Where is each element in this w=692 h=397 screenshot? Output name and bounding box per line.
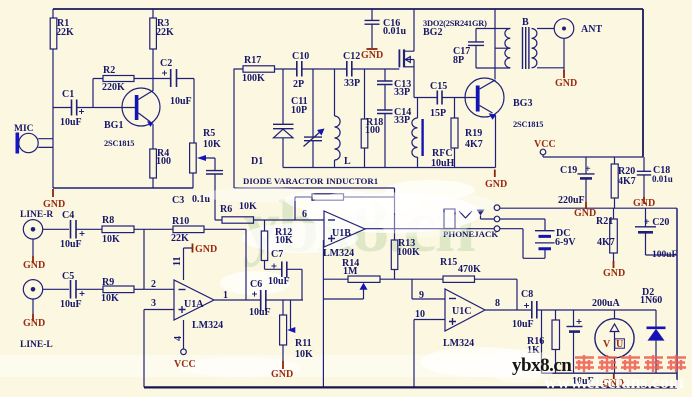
svg-text:GND: GND xyxy=(361,50,383,61)
node left rail x53 xyxy=(52,9,54,188)
svg-text:33P: 33P xyxy=(394,115,410,126)
wire collector feed xyxy=(494,9,496,79)
svg-text:C5: C5 xyxy=(62,271,74,282)
svg-text:C10: C10 xyxy=(292,51,309,62)
svg-text:6-9V: 6-9V xyxy=(555,237,576,248)
svg-text:V: V xyxy=(603,339,611,350)
svg-text:+ C20: + C20 xyxy=(644,217,669,228)
ground R21 xyxy=(613,261,615,268)
resistor R17 xyxy=(243,66,275,72)
battery DC xyxy=(535,231,555,249)
capacitor C5 xyxy=(71,280,104,299)
capacitor C19 xyxy=(578,157,595,202)
svg-text:15P: 15P xyxy=(430,108,446,119)
svg-text:+: + xyxy=(585,164,591,175)
svg-text:www.elecfans.com: www.elecfans.com xyxy=(544,372,684,392)
inductor L xyxy=(335,69,341,168)
svg-text:4K7: 4K7 xyxy=(465,139,483,150)
wire meter rail xyxy=(542,372,678,374)
ground main left xyxy=(52,189,54,197)
capacitor C13 xyxy=(377,69,393,85)
ground meter xyxy=(613,373,615,379)
svg-text:C3: C3 xyxy=(172,195,184,206)
wire U1B output xyxy=(365,228,494,230)
svg-text:D1: D1 xyxy=(251,156,263,167)
svg-text:4K7: 4K7 xyxy=(618,176,636,187)
wire U1A output pin1 xyxy=(214,299,260,301)
mosfet BG2 xyxy=(399,9,414,98)
svg-text:MIC: MIC xyxy=(14,124,34,134)
svg-text:C8: C8 xyxy=(521,289,533,300)
svg-text:GND: GND xyxy=(633,198,655,209)
wire U1C output pin8 xyxy=(485,309,531,311)
svg-text:U1A: U1A xyxy=(184,299,204,310)
wire oscillator node xyxy=(414,97,437,99)
svg-text:R11: R11 xyxy=(295,338,312,349)
svg-text:100K: 100K xyxy=(242,73,265,84)
wire vcc rail xyxy=(543,156,643,158)
varactor box bottom wire xyxy=(234,187,395,189)
svg-text:R19: R19 xyxy=(465,128,482,139)
svg-text:U1B: U1B xyxy=(332,228,351,239)
node mixer junction xyxy=(144,229,174,289)
capacitor C14 xyxy=(377,85,393,168)
ground C19 xyxy=(585,202,587,209)
svg-text:10uF: 10uF xyxy=(60,299,82,310)
svg-text:10: 10 xyxy=(415,309,425,320)
svg-text:INDUCTOR1: INDUCTOR1 xyxy=(326,176,378,186)
svg-text:C7: C7 xyxy=(271,249,283,260)
wire op-amp pin3 input xyxy=(144,310,174,388)
watermark green ybx8 xyxy=(243,186,476,268)
wire phonejack bottom loop xyxy=(500,229,545,259)
watermark white blobs xyxy=(0,180,540,377)
capacitor C20 xyxy=(635,208,677,255)
svg-text:GND: GND xyxy=(485,179,507,190)
antenna ANT xyxy=(554,19,574,72)
svg-text:ANT: ANT xyxy=(581,24,602,35)
wire right rail upper xyxy=(642,9,644,157)
svg-text:LM324: LM324 xyxy=(443,338,474,349)
resistor R3 xyxy=(150,9,157,91)
svg-text:470K: 470K xyxy=(458,264,481,275)
wire phonejack mid to battery xyxy=(500,219,545,230)
svg-text:R2: R2 xyxy=(103,65,115,76)
svg-text:10uH: 10uH xyxy=(431,158,455,169)
varactor box left edge xyxy=(233,69,235,189)
svg-text:LM324: LM324 xyxy=(192,320,223,331)
capacitor C3 xyxy=(206,171,223,220)
svg-text:GND: GND xyxy=(271,369,293,380)
ground ANT xyxy=(563,70,565,78)
wire tank top rail xyxy=(234,68,399,70)
wire U1A pin4 vcc xyxy=(181,320,187,355)
svg-text:10K: 10K xyxy=(101,293,119,304)
resistor R21 xyxy=(610,208,618,262)
resistor R12 xyxy=(261,220,267,269)
ground U1A pin11 xyxy=(192,244,194,253)
svg-text:R21: R21 xyxy=(596,216,613,227)
wire U1C pin9 xyxy=(412,279,445,299)
ground C16 xyxy=(367,48,378,50)
resistor R18 xyxy=(361,69,368,168)
resistor R2 xyxy=(93,76,170,108)
svg-text:1: 1 xyxy=(223,290,228,301)
svg-text:U1C: U1C xyxy=(452,306,471,317)
diode D2 xyxy=(647,310,666,373)
svg-text:10uF: 10uF xyxy=(268,276,290,287)
capacitor C4 xyxy=(71,220,103,239)
capacitor C15 xyxy=(437,91,476,105)
svg-text:100uF: 100uF xyxy=(652,250,678,260)
capacitor C16 xyxy=(365,9,380,48)
ground LINE-R xyxy=(32,256,34,263)
potentiometer R5 xyxy=(190,143,215,188)
svg-text:BG2: BG2 xyxy=(423,27,442,38)
microphone MIC xyxy=(16,133,54,154)
svg-text:GND: GND xyxy=(23,318,45,329)
svg-text:C6: C6 xyxy=(250,279,262,290)
svg-text:GND: GND xyxy=(43,199,65,210)
capacitor C6 xyxy=(252,290,303,311)
svg-text:6: 6 xyxy=(302,209,307,220)
wire output junction drop xyxy=(541,310,543,373)
svg-text:10uF: 10uF xyxy=(60,239,82,250)
svg-text:10uF: 10uF xyxy=(170,96,192,107)
svg-text:4K7: 4K7 xyxy=(597,237,615,248)
capacitor C8 xyxy=(524,301,656,319)
svg-text:2SC1815: 2SC1815 xyxy=(513,120,543,129)
svg-text:10K: 10K xyxy=(295,349,313,360)
op-amp U1A xyxy=(174,280,214,320)
connector LINE-L jack xyxy=(23,280,69,314)
potentiometer R11 xyxy=(280,300,296,362)
svg-text:GND: GND xyxy=(574,208,596,219)
svg-text:10uF: 10uF xyxy=(249,307,271,318)
wire U1A pin11 to gnd xyxy=(184,248,193,280)
svg-text:22K: 22K xyxy=(56,27,74,38)
svg-text:10K: 10K xyxy=(203,139,221,150)
resistor R19 xyxy=(451,98,458,168)
svg-text:R9: R9 xyxy=(102,277,114,288)
resistor R1 xyxy=(50,18,57,49)
svg-text:200uA: 200uA xyxy=(592,298,621,309)
svg-text:33P: 33P xyxy=(394,87,410,98)
svg-text:R6: R6 xyxy=(220,204,232,215)
svg-text:DIODE VARACTOR: DIODE VARACTOR xyxy=(243,176,324,186)
svg-text:10uF: 10uF xyxy=(512,319,534,330)
svg-text:C19: C19 xyxy=(560,165,577,176)
svg-text:BG3: BG3 xyxy=(513,98,532,109)
inductor RFC xyxy=(412,98,423,168)
svg-text:2SC1815: 2SC1815 xyxy=(104,139,134,148)
svg-text:100: 100 xyxy=(156,156,171,167)
svg-text:VCC: VCC xyxy=(174,359,196,370)
transformer B secondary xyxy=(532,29,565,68)
ground C18 xyxy=(643,197,645,204)
svg-text:B: B xyxy=(522,17,529,28)
op-amp U1B xyxy=(324,211,365,247)
ground BG3 xyxy=(494,170,496,178)
svg-text:3: 3 xyxy=(151,298,156,309)
svg-text:C12: C12 xyxy=(343,51,360,62)
red labels xyxy=(23,50,655,389)
svg-text:2: 2 xyxy=(151,279,156,290)
svg-text:LINE-R: LINE-R xyxy=(20,210,53,220)
capacitor C9 output xyxy=(567,310,583,373)
svg-text:220K: 220K xyxy=(102,82,125,93)
capacitor C18 xyxy=(637,157,651,198)
svg-text:220uF: 220uF xyxy=(558,195,585,206)
transistor BG1 xyxy=(122,88,160,149)
svg-text:10K: 10K xyxy=(102,234,120,245)
svg-text:8: 8 xyxy=(495,298,500,309)
svg-text:C15: C15 xyxy=(430,81,447,92)
svg-text:R17: R17 xyxy=(244,55,261,66)
svg-text:C2: C2 xyxy=(160,58,172,69)
op-amp U1C xyxy=(445,289,485,331)
svg-text:10uF: 10uF xyxy=(60,117,82,128)
wire U1C pin10 xyxy=(414,320,445,388)
meter 200uA xyxy=(595,310,634,373)
wire right rail lower xyxy=(676,208,678,387)
svg-text:GND: GND xyxy=(603,268,625,279)
svg-text:1M: 1M xyxy=(343,266,358,277)
svg-text:8P: 8P xyxy=(453,55,464,66)
svg-text:22K: 22K xyxy=(156,27,174,38)
svg-text:LINE-L: LINE-L xyxy=(20,340,53,350)
resistor R7 feedback xyxy=(312,194,395,200)
svg-text:R10: R10 xyxy=(172,216,189,227)
diode D1 varactor xyxy=(273,69,294,168)
svg-text:1N60: 1N60 xyxy=(640,295,662,306)
wire phonejack top to bias rail xyxy=(500,207,677,209)
svg-text:L: L xyxy=(344,156,351,167)
variable capacitor C11 xyxy=(304,69,325,168)
capacitor C17 xyxy=(468,29,484,69)
resistor R13 xyxy=(391,188,398,279)
terminal VCC xyxy=(540,149,546,157)
resistor R14 xyxy=(323,276,443,299)
svg-text:GND: GND xyxy=(195,244,217,255)
wire top supply rail xyxy=(53,8,643,10)
svg-text:33P: 33P xyxy=(344,78,360,89)
resistor R10 xyxy=(173,226,246,300)
watermark white overlay blobs xyxy=(205,187,556,383)
resistor R9 xyxy=(103,286,144,293)
watermark red cjk glyph blocks xyxy=(575,355,686,372)
wire bottom ground rail xyxy=(144,386,677,388)
svg-text:GND: GND xyxy=(555,78,577,89)
capacitor C2 xyxy=(162,69,194,143)
svg-text:10P: 10P xyxy=(291,105,307,116)
svg-text:BG1: BG1 xyxy=(104,120,123,131)
svg-text:R15: R15 xyxy=(440,257,457,268)
connector LINE-R jack xyxy=(23,220,69,256)
svg-text:100: 100 xyxy=(365,125,380,136)
svg-text:22K: 22K xyxy=(171,233,189,244)
resistor R6 xyxy=(222,217,324,223)
resistor R4 xyxy=(150,149,157,188)
ground R11 xyxy=(282,361,284,369)
svg-text:U: U xyxy=(616,339,623,350)
svg-text:R8: R8 xyxy=(102,215,114,226)
transformer B primary xyxy=(476,29,510,69)
svg-text:GND: GND xyxy=(23,260,45,271)
wire U1B plus rail xyxy=(322,240,324,387)
wire U1B inverting node xyxy=(295,197,312,220)
transformer B core xyxy=(523,27,529,69)
svg-text:100K: 100K xyxy=(397,247,420,258)
capacitor C10 xyxy=(297,61,302,77)
svg-text:C4: C4 xyxy=(62,210,74,221)
resistor R20 xyxy=(611,157,618,208)
phone jack PHONEJACK xyxy=(444,205,500,232)
svg-text:10K: 10K xyxy=(275,235,293,246)
svg-text:9: 9 xyxy=(419,290,424,301)
svg-text:0.01u: 0.01u xyxy=(652,174,673,184)
resistor R16 xyxy=(552,310,560,373)
svg-text:VCC: VCC xyxy=(534,139,556,150)
svg-text:R5: R5 xyxy=(203,128,215,139)
ground LINE-L xyxy=(32,314,34,321)
wire tank bottom rail xyxy=(283,167,496,169)
resistor R8 xyxy=(102,226,173,233)
wire ground rail left xyxy=(53,187,193,189)
svg-text:2P: 2P xyxy=(293,79,304,90)
capacitor C7 xyxy=(265,262,303,301)
transistor BG3 xyxy=(465,78,504,168)
svg-text:0.01u: 0.01u xyxy=(383,26,407,37)
resistor R15 xyxy=(443,276,517,310)
capacitor C1 xyxy=(53,100,135,116)
svg-text:4: 4 xyxy=(173,336,184,341)
svg-text:C1: C1 xyxy=(62,89,74,100)
svg-text:11: 11 xyxy=(172,257,183,266)
capacitor C12 xyxy=(347,61,352,77)
